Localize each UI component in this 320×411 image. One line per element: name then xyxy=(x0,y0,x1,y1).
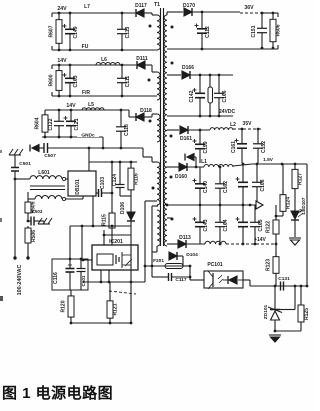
svg-text:C166: C166 xyxy=(222,90,228,102)
wire xyxy=(275,278,277,286)
junction xyxy=(27,220,30,223)
svg-text:+14V: +14V xyxy=(254,237,266,243)
capacitor C142 xyxy=(189,75,205,116)
svg-text:D118: D118 xyxy=(140,108,152,114)
svg-text:ZD101: ZD101 xyxy=(263,304,269,319)
wire end tick xyxy=(51,65,53,69)
wire primary tap A xyxy=(145,200,157,202)
svg-text:C165: C165 xyxy=(258,219,264,231)
svg-text:C117: C117 xyxy=(175,277,187,283)
wire dashed xyxy=(226,243,276,245)
wire xyxy=(109,291,136,294)
junction xyxy=(166,204,169,207)
junction xyxy=(130,161,133,164)
diode D113 xyxy=(178,235,191,248)
junction xyxy=(81,225,84,228)
capacitor C501 xyxy=(11,155,31,179)
svg-text:C122: C122 xyxy=(48,118,54,130)
inductor L601 winding a xyxy=(30,176,62,179)
diode xyxy=(179,163,187,171)
wire xyxy=(142,148,144,157)
junction xyxy=(111,161,114,164)
svg-text:C503: C503 xyxy=(32,209,43,214)
svg-text:D113: D113 xyxy=(179,235,191,241)
wire xyxy=(28,198,35,200)
junction xyxy=(58,64,61,67)
wire xyxy=(123,195,131,197)
wire xyxy=(144,12,152,14)
svg-text:FU: FU xyxy=(82,44,89,50)
svg-text:R115: R115 xyxy=(102,214,108,226)
wire main primary ground bus xyxy=(83,281,145,283)
wire xyxy=(144,276,146,278)
junction xyxy=(58,95,61,98)
svg-text:F/R: F/R xyxy=(82,90,90,96)
wire output bus xyxy=(167,204,256,206)
phase dot xyxy=(170,135,173,138)
resistor R506 xyxy=(25,226,37,258)
capacitor C113 xyxy=(117,13,131,50)
svg-text:D160: D160 xyxy=(175,174,187,180)
inductor L601 winding b xyxy=(35,195,62,199)
svg-text:R607: R607 xyxy=(49,25,55,37)
junction xyxy=(92,225,95,228)
wire xyxy=(188,129,210,131)
wire xyxy=(0,296,3,301)
fuse F201 xyxy=(145,258,190,269)
junction xyxy=(14,178,17,181)
resistor R125 xyxy=(275,286,310,331)
zener ZD101 xyxy=(263,286,282,331)
wire xyxy=(69,226,71,259)
svg-text:DB101: DB101 xyxy=(75,179,81,195)
wire xyxy=(144,116,152,118)
diode xyxy=(169,252,177,260)
wire primary bottom lead xyxy=(156,246,158,252)
junction xyxy=(199,129,202,132)
inductor L601 core xyxy=(30,185,65,187)
phase dot xyxy=(148,79,151,82)
junction xyxy=(58,109,61,112)
transformer T1 left winding 3 xyxy=(157,114,160,142)
wire xyxy=(186,243,205,245)
svg-text:L5: L5 xyxy=(88,102,94,108)
svg-text:C140: C140 xyxy=(203,181,209,193)
wire dashed xyxy=(233,128,262,130)
wire feedback bus xyxy=(243,279,250,281)
wire xyxy=(66,198,84,200)
capacitor xyxy=(236,205,249,244)
transformer T1 right winding xyxy=(164,15,167,246)
junction xyxy=(274,330,277,333)
svg-text:C111: C111 xyxy=(125,76,131,88)
capacitor C112 xyxy=(195,13,212,49)
wire AC bus xyxy=(15,178,30,180)
inductor L3 coil xyxy=(205,241,226,244)
capacitor C152 xyxy=(253,129,267,163)
junction xyxy=(275,243,278,246)
wire xyxy=(151,266,153,277)
svg-text:C168: C168 xyxy=(260,179,266,191)
capacitor C165 xyxy=(250,205,264,244)
caption xyxy=(2,382,113,403)
wire xyxy=(88,148,90,162)
diode arrow marker xyxy=(187,154,194,161)
wire xyxy=(52,64,136,66)
LED LED107 xyxy=(291,194,306,237)
capacitor xyxy=(236,164,249,205)
svg-text:24VDC: 24VDC xyxy=(219,109,236,115)
optocoupler PC101 xyxy=(204,262,243,289)
svg-text:C162: C162 xyxy=(223,181,229,193)
diode D166 xyxy=(182,65,194,79)
phase dot xyxy=(149,120,152,123)
wire xyxy=(70,289,72,291)
wire xyxy=(100,270,102,282)
svg-text:PC101: PC101 xyxy=(207,262,223,268)
junction xyxy=(195,166,198,169)
phase dot xyxy=(170,176,173,179)
wire xyxy=(145,64,152,66)
resistor R606 xyxy=(270,13,282,48)
wire xyxy=(275,238,277,256)
svg-text:F201: F201 xyxy=(153,258,164,264)
capacitor C140 xyxy=(193,167,210,205)
transformer T1 left winding 1 xyxy=(157,15,160,50)
capacitor C151 xyxy=(251,13,267,48)
svg-text:D106: D106 xyxy=(120,202,126,214)
resistor R604 xyxy=(35,110,49,137)
IC U201 IC201 xyxy=(92,239,138,270)
junction xyxy=(219,243,222,246)
wire xyxy=(103,230,105,245)
junction xyxy=(58,136,61,139)
capacitor C503 xyxy=(28,209,43,226)
diode D118 xyxy=(136,108,152,121)
junction xyxy=(119,161,122,164)
wire xyxy=(233,164,252,166)
wire DB101 negative xyxy=(92,196,94,226)
junction xyxy=(88,147,91,150)
inductor L2 coil xyxy=(210,128,233,130)
svg-text:R116: R116 xyxy=(134,173,140,185)
svg-text:1.5V: 1.5V xyxy=(263,157,274,163)
resistor R127 xyxy=(292,164,304,194)
svg-text:T1: T1 xyxy=(154,2,160,8)
junction xyxy=(58,49,61,52)
svg-text:C142: C142 xyxy=(189,90,195,102)
svg-text:C163: C163 xyxy=(73,75,79,87)
junction xyxy=(111,192,114,195)
wire xyxy=(194,156,196,158)
junction xyxy=(144,265,147,268)
resistor R121 xyxy=(107,296,119,323)
inductor L1 coil xyxy=(204,164,233,167)
resistor R230 xyxy=(208,75,213,116)
wire 24VDC return xyxy=(167,115,233,117)
svg-text:C118: C118 xyxy=(124,124,130,136)
junction xyxy=(80,258,83,261)
inductor L6 coil xyxy=(96,62,120,65)
phase dot xyxy=(171,218,174,221)
svg-text:24V: 24V xyxy=(57,6,67,12)
capacitor C161 xyxy=(231,129,247,163)
resistor R123 xyxy=(266,252,280,278)
inductor L6 xyxy=(101,57,107,63)
wire AC line 1 xyxy=(14,179,16,258)
junction xyxy=(199,74,202,77)
svg-text:IC201: IC201 xyxy=(109,239,123,245)
wire dashed xyxy=(240,12,262,14)
wire xyxy=(167,217,172,219)
wire zener tap xyxy=(280,309,295,311)
arrow output xyxy=(256,201,263,209)
svg-text:D161: D161 xyxy=(180,136,192,142)
junction xyxy=(261,12,264,15)
wire xyxy=(187,166,204,168)
phase dot xyxy=(149,25,152,28)
junction xyxy=(242,163,245,166)
resistor R115 xyxy=(102,211,116,245)
junction xyxy=(120,109,123,112)
svg-text:D117: D117 xyxy=(135,3,147,9)
resistor R122 xyxy=(266,216,280,238)
wire xyxy=(88,162,90,171)
capacitor C168 xyxy=(252,164,266,205)
capacitor C118 xyxy=(116,110,130,148)
svg-text:R124: R124 xyxy=(286,197,292,209)
svg-text:R120: R120 xyxy=(61,300,67,312)
wire xyxy=(275,205,277,219)
junction xyxy=(82,259,85,262)
svg-text:14V: 14V xyxy=(57,58,67,64)
resistor R116 xyxy=(128,162,140,196)
svg-text:R606: R606 xyxy=(276,24,282,36)
wire F/R return xyxy=(52,95,157,97)
svg-text:C103: C103 xyxy=(100,177,106,189)
transformer T1 primary winding upper xyxy=(157,162,160,205)
svg-text:LED107: LED107 xyxy=(301,197,306,214)
junction xyxy=(201,48,204,51)
wire xyxy=(27,192,29,199)
phase dot xyxy=(171,62,174,65)
wire xyxy=(190,279,204,281)
wire xyxy=(27,216,29,222)
svg-text:R123: R123 xyxy=(266,259,272,271)
wire end tick xyxy=(51,13,53,17)
capacitor C116 xyxy=(53,259,75,290)
svg-text:C152: C152 xyxy=(261,141,267,153)
svg-text:C601: C601 xyxy=(81,275,86,286)
chassis ground xyxy=(38,218,52,224)
capacitor C166 xyxy=(214,75,228,116)
svg-text:C159: C159 xyxy=(203,141,209,153)
svg-text:R121: R121 xyxy=(113,303,119,315)
ground xyxy=(269,335,281,342)
junction xyxy=(199,115,202,118)
junction xyxy=(100,281,103,284)
diode D117 xyxy=(135,3,147,17)
junction xyxy=(219,166,222,169)
svg-text:D104: D104 xyxy=(186,252,198,258)
wire xyxy=(83,259,92,261)
wire xyxy=(128,110,130,117)
junction xyxy=(58,12,61,15)
inductor L5 coil xyxy=(82,108,104,110)
capacitor C507 xyxy=(39,143,143,159)
junction xyxy=(102,147,105,150)
wire 1.5V feed xyxy=(306,164,308,286)
wire xyxy=(70,225,131,227)
junction xyxy=(275,215,278,218)
chassis ground xyxy=(9,149,23,155)
svg-text:R122: R122 xyxy=(266,221,272,233)
capacitor C143 xyxy=(193,205,210,244)
resistor R600 xyxy=(49,65,63,96)
wire xyxy=(282,164,284,194)
resistor R120 xyxy=(61,290,75,323)
svg-text:R127: R127 xyxy=(298,173,304,185)
diode D170 xyxy=(183,3,195,16)
capacitor C122 xyxy=(48,110,64,137)
svg-text:C112: C112 xyxy=(205,26,211,38)
junction xyxy=(69,258,72,261)
capacitor C163 xyxy=(63,65,80,96)
diode D111 xyxy=(136,56,148,69)
svg-text:L7: L7 xyxy=(84,4,90,10)
capacitor C162 xyxy=(215,167,229,205)
diode xyxy=(180,126,188,134)
svg-text:C501: C501 xyxy=(19,161,31,167)
capacitor C111 xyxy=(117,65,131,96)
phase dot xyxy=(171,26,174,29)
capacitor C601 xyxy=(77,259,87,290)
wire xyxy=(166,12,168,15)
wire xyxy=(177,255,183,257)
svg-text:C507: C507 xyxy=(44,153,56,159)
svg-text:D111: D111 xyxy=(136,56,148,62)
junction xyxy=(70,322,73,325)
capacitor C103 xyxy=(96,177,112,197)
input filter box xyxy=(52,259,88,290)
junction xyxy=(189,265,192,268)
wire GNDc return xyxy=(42,136,103,138)
capacitor C149 xyxy=(63,13,80,50)
svg-text:R125: R125 xyxy=(304,308,310,320)
diode D106 xyxy=(120,196,135,221)
junction xyxy=(103,234,106,237)
svg-text:GNDc: GNDc xyxy=(81,133,95,139)
capacitor C124 xyxy=(112,162,125,196)
junction xyxy=(189,276,192,279)
capacitor C164 xyxy=(215,205,229,244)
wire xyxy=(109,282,111,296)
wire FU return xyxy=(52,49,157,51)
capacitor C117 xyxy=(152,273,190,283)
svg-text:100-240VAC: 100-240VAC xyxy=(17,265,23,296)
L601 terminal xyxy=(62,197,65,200)
svg-text:R604: R604 xyxy=(35,117,41,129)
resistor R607 xyxy=(49,13,63,50)
bridge rectifier DB101 xyxy=(68,171,96,196)
svg-text:C113: C113 xyxy=(125,26,131,38)
svg-text:L601: L601 xyxy=(38,170,50,176)
wire primary top xyxy=(151,157,153,162)
svg-text:C121: C121 xyxy=(74,118,80,130)
junction xyxy=(130,281,133,284)
phase dot xyxy=(152,187,155,190)
wire xyxy=(276,215,283,217)
wire end tick xyxy=(262,12,278,14)
svg-text:D170: D170 xyxy=(183,3,195,9)
capacitor C121 xyxy=(64,110,81,137)
transformer T1 left winding 2 xyxy=(157,72,160,100)
L601 terminal xyxy=(62,177,65,180)
svg-text:C116: C116 xyxy=(53,272,59,284)
svg-text:14V: 14V xyxy=(66,103,76,109)
wire primary tap B xyxy=(152,205,158,207)
wire xyxy=(167,48,278,50)
transformer T1 core xyxy=(154,2,164,246)
wire xyxy=(108,270,110,282)
svg-text:D166: D166 xyxy=(182,65,194,71)
diode arrow marker xyxy=(32,145,39,152)
junction xyxy=(274,285,277,288)
junction xyxy=(201,11,204,14)
inductor L601 xyxy=(38,170,50,176)
wire snubber bus xyxy=(89,161,137,163)
svg-text:36V: 36V xyxy=(244,5,254,11)
svg-text:R506: R506 xyxy=(31,230,37,242)
svg-text:C143: C143 xyxy=(203,219,209,231)
wire end tick xyxy=(277,45,279,49)
wire xyxy=(66,178,69,180)
capacitor C131 xyxy=(278,276,290,291)
wire xyxy=(52,12,135,14)
svg-text:C131: C131 xyxy=(278,276,290,282)
wire xyxy=(167,74,181,76)
svg-text:C149: C149 xyxy=(73,26,79,38)
svg-text:C164: C164 xyxy=(223,219,229,231)
wire xyxy=(192,11,240,13)
wire xyxy=(104,234,131,236)
wire xyxy=(45,109,129,111)
junction xyxy=(241,128,244,131)
ground xyxy=(289,238,301,245)
wire end tick xyxy=(51,46,53,50)
svg-text:35V: 35V xyxy=(243,121,253,127)
wire xyxy=(189,266,191,280)
wire xyxy=(167,166,179,168)
wire xyxy=(190,74,233,76)
transformer T1 primary winding lower xyxy=(157,210,160,246)
wire xyxy=(167,243,178,245)
resistor R505 xyxy=(25,199,37,216)
wire end tick xyxy=(51,92,53,96)
terminal xyxy=(26,256,29,259)
capacitor C159 xyxy=(193,130,210,163)
wire xyxy=(167,129,179,131)
wire xyxy=(111,162,113,213)
svg-text:C161: C161 xyxy=(231,141,237,153)
wire xyxy=(81,226,83,259)
terminal xyxy=(13,256,16,259)
inductor L7 xyxy=(78,4,130,13)
svg-text:C151: C151 xyxy=(251,25,257,37)
resistor R124 xyxy=(280,190,292,216)
svg-text:R600: R600 xyxy=(49,74,55,86)
wire step xyxy=(102,137,104,148)
